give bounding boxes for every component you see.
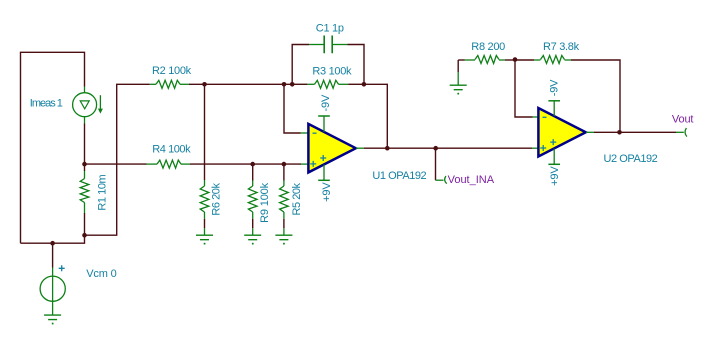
current source Imeas 1: [73, 87, 103, 124]
node U2 feedback dot: [617, 130, 622, 135]
wire R4 from node A: [85, 163, 147, 165]
svg-text:Vout_INA: Vout_INA: [448, 174, 495, 186]
wire R5 branch: [283, 164, 285, 180]
voltage source Vcm 0: [40, 268, 65, 316]
capacitor C1: [309, 36, 348, 54]
U2 input/output markers: [540, 117, 556, 151]
label R9 100k: [259, 182, 271, 223]
resistor R4: [147, 160, 191, 168]
label Vcm 0: [86, 268, 116, 280]
wire bottom jog to feedback riser: [85, 84, 150, 235]
wire bottom of loop: [21, 235, 85, 243]
node Vcm tap dot: [50, 241, 55, 246]
label -9V (U2): [549, 79, 561, 96]
label C1 1p: [316, 22, 344, 34]
resistor R6: [200, 180, 209, 219]
label U2 OPA192: [604, 153, 658, 165]
wire R6 branch down: [204, 84, 206, 180]
wire C1 loop left: [292, 45, 309, 85]
label Vout: [672, 114, 694, 126]
svg-text:-9V: -9V: [320, 94, 332, 111]
node R6 branch dot: [202, 82, 207, 87]
svg-text:C1 1p: C1 1p: [316, 22, 344, 34]
label R8 200: [471, 41, 505, 53]
wire R3 leads red: [292, 83, 364, 85]
wire left loop box: [21, 52, 85, 243]
wire R2 to R3 left: [189, 83, 292, 85]
label Vout_INA: [448, 174, 495, 186]
terminal Vout_INA: [436, 176, 447, 184]
terminal Vout: [676, 128, 687, 137]
node U1 feedback dot: [385, 146, 390, 151]
node R3/C1 right dot: [362, 82, 367, 87]
label U1 OPA192: [372, 170, 426, 182]
svg-text:R1 10m: R1 10m: [97, 174, 109, 210]
label R7 3.8k: [543, 41, 580, 53]
svg-text:Vcm 0: Vcm 0: [86, 268, 116, 280]
resistor R2: [150, 80, 189, 88]
wire R9 branch: [252, 164, 254, 180]
ground below R9: [244, 228, 261, 244]
label R6 20k: [211, 183, 223, 216]
U2 negative supply pin -9V: [548, 101, 560, 116]
op-amp U2: [532, 108, 594, 157]
node R1 bottom dot: [82, 233, 87, 238]
U1 input/output markers: [310, 133, 326, 167]
wire to U1 inverting input: [284, 84, 301, 133]
node R3/C1 left dot: [290, 82, 295, 87]
wire to U2 inverting input: [515, 60, 533, 117]
svg-text:+9V: +9V: [321, 182, 333, 202]
label R4 100k: [152, 144, 191, 156]
ground at R8: [450, 60, 467, 95]
svg-text:R4 100k: R4 100k: [152, 144, 191, 156]
wire C1 loop right: [348, 45, 365, 85]
label R3 100k: [312, 65, 352, 77]
svg-text:Imeas 1: Imeas 1: [30, 97, 63, 109]
label R1 10m: [97, 174, 109, 210]
U2 positive supply pin +9V: [548, 149, 560, 165]
wire U2 output: [594, 131, 676, 133]
resistor R8: [458, 56, 515, 64]
ground below R5: [275, 228, 292, 244]
svg-text:R8 200: R8 200: [471, 41, 505, 53]
wire Vout_INA drop: [435, 148, 437, 180]
wire R5 to ground: [283, 219, 285, 229]
wire U1 output to U2 input: [364, 147, 532, 149]
resistor R9: [248, 181, 257, 219]
wire R9 to ground: [252, 219, 254, 229]
U1 negative supply pin -9V: [318, 116, 330, 132]
wire R4 to U1 noninverting input: [190, 163, 301, 165]
resistor R7: [515, 56, 620, 133]
resistor R1: [80, 171, 89, 213]
label R5 20k: [291, 182, 303, 215]
node A dot (Imeas/R1/R4): [82, 162, 87, 167]
svg-text:Vout: Vout: [672, 114, 694, 126]
node R5 branch dot: [282, 162, 287, 167]
svg-text:R7 3.8k: R7 3.8k: [543, 41, 580, 53]
node R8/R7 junction dot: [513, 57, 518, 62]
svg-text:R9 100k: R9 100k: [259, 182, 271, 223]
resistor R5: [280, 181, 289, 219]
ground below Vcm: [44, 315, 61, 324]
svg-text:R5 20k: R5 20k: [291, 182, 303, 215]
resistor R3: [307, 80, 348, 88]
label +9V (U2): [549, 166, 561, 186]
svg-text:R2 100k: R2 100k: [152, 65, 192, 77]
svg-text:+9V: +9V: [549, 166, 561, 186]
svg-text:U2 OPA192: U2 OPA192: [604, 153, 658, 165]
U1 positive supply pin +9V: [318, 165, 330, 181]
wire Imeas to node A: [84, 124, 86, 172]
svg-text:U1 OPA192: U1 OPA192: [372, 170, 426, 182]
svg-text:R6 20k: R6 20k: [211, 183, 223, 216]
wire Vcm stub: [52, 243, 54, 267]
label +9V (U1): [321, 182, 333, 202]
node Vout_INA tap dot: [433, 146, 438, 151]
label -9V (U1): [320, 94, 332, 111]
op-amp U1: [301, 124, 365, 172]
label Imeas 1: [30, 97, 63, 109]
label R2 100k: [152, 65, 192, 77]
wire feedback to U1 output: [364, 84, 387, 148]
wire R6 to ground: [204, 219, 206, 229]
svg-text:-9V: -9V: [549, 79, 561, 96]
svg-text:R3 100k: R3 100k: [312, 65, 352, 77]
wire R1 bottom: [84, 213, 86, 235]
plus marker Vcm: [59, 265, 65, 271]
node R9 branch dot: [250, 162, 255, 167]
node U1 inverting branch dot: [282, 82, 287, 87]
ground below R6: [196, 228, 213, 244]
